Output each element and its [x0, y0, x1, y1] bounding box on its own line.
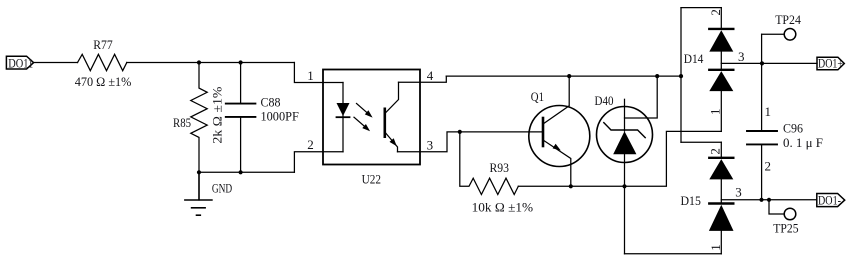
wire node to U22 pin 1 [294, 63, 343, 83]
wire D15 tap to DO1- [721, 199, 817, 201]
wire D40 bottom to D15 bottom [625, 253, 722, 255]
test point TP25 [769, 200, 796, 220]
diode D14 (dual stack) [709, 8, 733, 132]
wire U22 pin 4 stub [399, 76, 447, 82]
svg-text:2k Ω ±1%: 2k Ω ±1% [209, 86, 224, 143]
test point TP24 [762, 29, 796, 64]
svg-text:1: 1 [307, 68, 314, 83]
svg-text:3: 3 [427, 137, 434, 152]
capacitor C96 [747, 63, 777, 199]
U22 light arrow 1 [357, 104, 373, 118]
svg-text:DO1-: DO1- [818, 192, 841, 207]
U22 LED diode [337, 103, 350, 117]
wire D15 top [681, 141, 721, 143]
wire collector rail [446, 75, 681, 77]
svg-text:0. 1 μ F: 0. 1 μ F [783, 135, 823, 150]
svg-text:D15: D15 [681, 193, 701, 208]
wire rail to D40 top [625, 76, 658, 118]
svg-text:D40: D40 [595, 93, 614, 108]
svg-text:4: 4 [427, 68, 434, 83]
U22 phototransistor [385, 82, 399, 151]
svg-text:Q1: Q1 [531, 89, 544, 104]
junction at C88 top [239, 60, 243, 64]
junction at TP25 stem [767, 198, 771, 202]
junction at Q1 collector [567, 74, 571, 78]
svg-text:1: 1 [708, 244, 723, 251]
resistor R77 [78, 54, 127, 70]
junction at Q1 emitter [569, 184, 573, 188]
svg-text:2: 2 [765, 159, 772, 174]
svg-text:2: 2 [708, 148, 723, 155]
svg-text:GND: GND [212, 180, 232, 195]
svg-text:3: 3 [735, 185, 742, 200]
svg-text:3: 3 [738, 49, 745, 64]
junction at D14 left vertical [679, 74, 683, 78]
svg-text:C88: C88 [261, 94, 281, 109]
svg-text:1000PF: 1000PF [261, 108, 299, 123]
svg-text:U22: U22 [362, 172, 381, 187]
svg-text:1: 1 [765, 104, 772, 119]
wire ground rail to U22 pin 2 [294, 152, 343, 173]
junction at R85 bottom [197, 170, 201, 174]
wire D14 top [681, 7, 721, 9]
svg-text:470 Ω ±1%: 470 Ω ±1% [75, 74, 132, 89]
junction at R85 top [197, 60, 201, 64]
svg-text:R85: R85 [173, 115, 191, 130]
diode D40 (zener in circle) [597, 99, 653, 254]
wire DO11 to R77 [34, 62, 78, 64]
transistor Q1 [529, 76, 590, 186]
wire emitter rail [518, 131, 721, 186]
svg-text:2: 2 [307, 137, 314, 152]
svg-text:TP25: TP25 [773, 221, 798, 236]
svg-text:10k Ω ±1%: 10k Ω ±1% [472, 199, 534, 214]
wire D14 tap to DO1+ [721, 62, 817, 64]
ground [185, 172, 212, 215]
resistor R85 [191, 63, 207, 173]
op-amp U22 optocoupler box [323, 70, 420, 165]
junction at D40 bottom [622, 184, 626, 188]
junction at D40 branch [655, 74, 659, 78]
junction at base/R93 node [458, 130, 462, 134]
wire R77 to U22 pin 1 node [127, 62, 295, 64]
svg-text:DO1+: DO1+ [818, 56, 843, 71]
svg-text:1: 1 [708, 109, 723, 116]
port DO1- (bottom right flag) [817, 194, 845, 207]
svg-text:D14: D14 [684, 51, 704, 66]
U22 LED anode bar [342, 83, 344, 152]
wire ground rail [199, 171, 294, 173]
resistor R93 [460, 132, 519, 195]
svg-text:R77: R77 [93, 37, 113, 52]
junction at C96 bottom [759, 198, 763, 202]
diode D15 (dual stack) [709, 142, 734, 254]
wire U22 pin 3 to Q1 base [398, 132, 544, 152]
svg-text:2: 2 [708, 9, 723, 16]
U22 light arrow 2 [354, 117, 370, 131]
svg-text:DO11: DO11 [8, 56, 33, 71]
svg-text:C96: C96 [783, 121, 803, 136]
port DO11 (left input flag) [6, 56, 33, 69]
svg-text:R93: R93 [490, 160, 510, 175]
junction at C96 top / TP24 [760, 61, 764, 65]
junction at C88 bottom [239, 170, 243, 174]
capacitor C88 [226, 63, 256, 173]
wire D14 left vertical [680, 8, 682, 143]
svg-text:TP24: TP24 [775, 12, 801, 27]
port DO1+ (top right flag) [817, 57, 844, 70]
